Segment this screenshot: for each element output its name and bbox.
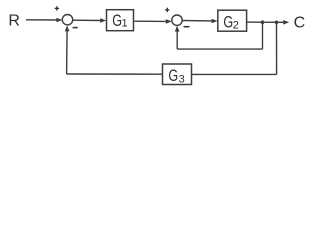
- wire summing junction 1 to G1: [73, 19, 101, 21]
- wire outer feedback: horizontal from G3 to left corner: [67, 73, 163, 75]
- node junction dot 2 (outer feedback takeoff): [275, 21, 279, 25]
- svg-text:2: 2: [233, 19, 239, 31]
- block G3: [163, 64, 192, 85]
- minus sign at summing junction 2: [184, 26, 190, 28]
- wire inner feedback: horizontal run: [177, 48, 262, 50]
- wire inner feedback: up into summing junction 2: [176, 29, 178, 50]
- block G2: [218, 10, 247, 31]
- svg-text:3: 3: [179, 73, 185, 85]
- svg-text:C: C: [294, 15, 306, 32]
- wire G2 to C: [247, 21, 285, 23]
- svg-text:G: G: [168, 66, 178, 85]
- wire summing junction 2 to G2: [182, 20, 212, 22]
- node junction dot 1 (inner feedback takeoff): [261, 20, 265, 24]
- wire R to summing junction 1: [26, 19, 58, 21]
- svg-text:R: R: [8, 13, 20, 30]
- wire outer feedback: horizontal from right corner to G3: [192, 73, 277, 75]
- minus sign at summing junction 1: [73, 27, 78, 29]
- block G1: [107, 10, 134, 31]
- svg-text:1: 1: [122, 17, 128, 29]
- plus sign at summing junction 1: [55, 6, 59, 10]
- wire inner feedback: down from dot 1: [262, 22, 264, 49]
- wire outer feedback: up into summing junction 1: [66, 29, 69, 75]
- wire outer feedback: down from dot 2: [276, 22, 278, 74]
- plus sign at summing junction 2: [165, 8, 169, 12]
- summing junction 2: [172, 15, 182, 25]
- wire G1 to summing junction 2: [135, 20, 168, 22]
- summing junction 1: [62, 15, 72, 25]
